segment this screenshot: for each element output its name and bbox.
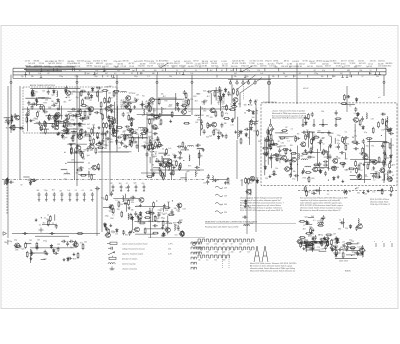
wire W65 (264, 151, 266, 175)
svg-text:0.1 B3: 0.1 B3 (345, 66, 350, 68)
transistor Q45 (362, 155, 368, 160)
ground G39 (390, 193, 393, 196)
inductor L41 (166, 223, 172, 224)
ground G30 (337, 175, 340, 178)
svg-text:Mains 220V 50Hz All resistors: Mains 220V 50Hz All resistors in ohms Ma (272, 117, 306, 120)
svg-text:3k3: 3k3 (203, 91, 206, 93)
svg-text:2.2 B8: 2.2 B8 (249, 63, 254, 65)
svg-text:1n5: 1n5 (273, 157, 276, 159)
wire W81 (364, 161, 385, 163)
capacitor C33 (208, 124, 213, 127)
wire W153 (319, 250, 327, 252)
svg-text:0.1: 0.1 (39, 224, 42, 226)
svg-text:33k: 33k (131, 209, 134, 211)
resistor R110 (270, 134, 272, 141)
wire W146 (69, 91, 103, 93)
resistor R181 (64, 121, 66, 128)
junction N33 (351, 255, 352, 256)
inductor L22 (197, 148, 203, 149)
svg-text:10k: 10k (169, 76, 172, 78)
svg-text:5p6: 5p6 (87, 155, 90, 157)
wire W60 (181, 149, 189, 151)
svg-text:12: 12 (360, 170, 362, 172)
diode D36 (349, 224, 352, 229)
supply rail bus 1 (13, 67, 386, 69)
capacitor C198 (308, 242, 313, 245)
resistor R89 (127, 129, 134, 131)
svg-text:12: 12 (126, 183, 128, 185)
diode D21 (146, 129, 149, 134)
capacitor C23 (144, 105, 149, 108)
chassis chain line (298, 190, 397, 192)
svg-text:100: 100 (154, 70, 157, 72)
wire W152 (306, 249, 321, 251)
svg-text:33k: 33k (109, 205, 112, 207)
capacitor C140 (128, 231, 131, 236)
svg-text:12: 12 (217, 67, 219, 69)
resistor R145 (310, 228, 312, 235)
capacitor C58 (149, 139, 152, 144)
resistor R204 (345, 144, 347, 151)
svg-text:4k7: 4k7 (279, 146, 282, 148)
capacitor C106 (386, 126, 389, 131)
junction cross (39, 228, 44, 233)
svg-text:100: 100 (142, 70, 145, 72)
capacitor C45 (254, 100, 257, 105)
svg-text:82: 82 (129, 120, 131, 122)
inductor L42 (127, 213, 130, 219)
wire W159 (346, 250, 360, 252)
resistor R12 (107, 117, 114, 119)
diode D55 (159, 162, 162, 167)
svg-text:220: 220 (210, 117, 213, 119)
svg-text:4k7: 4k7 (142, 115, 145, 117)
capacitor C107 (355, 142, 360, 145)
capacitor C4 (47, 115, 50, 120)
plug stub 3 (242, 80, 244, 82)
svg-text:C5: C5 (301, 240, 303, 242)
wire W148 (65, 123, 86, 125)
transistor Q33 (72, 242, 78, 247)
svg-text:270p B4: 270p B4 (276, 63, 283, 65)
ground G41 (306, 221, 309, 224)
wire W57 (171, 160, 173, 180)
svg-text:33k: 33k (131, 202, 134, 204)
resistor R113 (302, 153, 309, 155)
detector rail wire 2 (151, 118, 153, 176)
svg-text:0.1: 0.1 (44, 218, 47, 220)
diode D14 (222, 93, 225, 98)
svg-text:12: 12 (306, 130, 308, 132)
resistor R17 (84, 97, 91, 99)
svg-text:wired on tag strip: wired on tag strip (122, 263, 136, 266)
ground G4 (29, 119, 32, 122)
svg-text:3k3: 3k3 (178, 152, 181, 154)
ground G60 (84, 130, 87, 133)
resistor R112 (308, 176, 310, 183)
audio rail wire 2 (109, 118, 111, 196)
svg-text:2.2: 2.2 (68, 117, 71, 119)
svg-text:2.2: 2.2 (287, 141, 290, 143)
ground G70 (389, 160, 392, 163)
wire W74 (316, 149, 318, 165)
wire W6 (49, 88, 56, 90)
resistor R116 (305, 172, 312, 174)
svg-text:C24: C24 (179, 220, 182, 222)
waveform callout 2 (215, 194, 228, 197)
svg-text:33k U4: 33k U4 (222, 66, 228, 68)
capacitor C42 (227, 91, 230, 96)
wire W116 (42, 97, 49, 99)
wire W150 (71, 130, 77, 132)
svg-text:82: 82 (111, 183, 113, 185)
speaker return wire (35, 235, 69, 237)
resistor R183 (152, 143, 154, 150)
ground G54 (214, 179, 217, 182)
capacitor C47 (244, 128, 249, 131)
wire W107 (113, 198, 139, 200)
svg-text:47p: 47p (327, 168, 330, 170)
inductor L55 (362, 251, 363, 257)
transistor Q83 (181, 110, 187, 115)
wire W73 (327, 146, 329, 171)
wire W143 (306, 247, 313, 249)
inductor L2 (28, 110, 29, 116)
capacitor C117 (343, 189, 346, 194)
svg-text:5p6: 5p6 (232, 118, 235, 120)
capacitor C176 (324, 245, 327, 250)
svg-text:10k: 10k (198, 260, 201, 262)
capacitor C56 (117, 136, 122, 139)
wire W1 (67, 111, 93, 113)
junction N8 (88, 162, 89, 163)
capacitor C70 (170, 163, 173, 168)
diode D20 (67, 129, 70, 134)
svg-text:C79: C79 (317, 247, 320, 249)
resistor R30 (11, 115, 13, 122)
resistor R71 (91, 174, 93, 181)
svg-text:33k: 33k (272, 76, 275, 78)
wire W87 (350, 175, 356, 177)
diode D54 (152, 172, 155, 177)
resistor R227 (321, 240, 323, 247)
diode D17 (240, 130, 243, 135)
capacitor C24 (140, 103, 145, 106)
svg-text:C90: C90 (281, 143, 284, 145)
svg-text:680: 680 (311, 178, 314, 180)
capacitor C31 (130, 118, 135, 121)
wire W30 (220, 92, 222, 111)
svg-text:220: 220 (345, 228, 348, 230)
resistor R212 (54, 119, 56, 126)
svg-text:12: 12 (363, 153, 365, 155)
capacitor C68 (150, 147, 155, 150)
wire W160 (346, 254, 355, 256)
oscillogram symbol row 2 col 2 (206, 247, 213, 254)
svg-text:680: 680 (110, 142, 113, 144)
resistor R34 (160, 119, 162, 126)
wire W64 (297, 146, 299, 182)
plug socket P10 (247, 82, 250, 85)
inductor L47 (139, 127, 145, 128)
transistor Q90 (165, 228, 171, 233)
capacitor C164 (95, 187, 100, 190)
terminal P6 (383, 81, 385, 83)
inductor L32 (387, 117, 388, 123)
svg-text:0.1: 0.1 (98, 147, 101, 149)
svg-text:POWER PACK: POWER PACK (263, 101, 277, 104)
ground G19 (104, 132, 107, 135)
capacitor C17 (38, 121, 41, 126)
power pack enclosure box (261, 103, 397, 186)
resistor R233 (310, 241, 317, 243)
wire W3 (98, 90, 100, 102)
resistor R58 (343, 94, 345, 101)
svg-text:chassis connection: chassis connection (122, 268, 137, 271)
wire W43 (75, 151, 85, 153)
wire W98 (41, 259, 46, 261)
wire W21 (147, 118, 157, 120)
svg-text:220: 220 (45, 100, 48, 102)
junction N20 (355, 188, 356, 189)
svg-text:4k7: 4k7 (151, 155, 154, 157)
svg-text:4k7: 4k7 (79, 70, 82, 72)
svg-text:100 G7: 100 G7 (341, 61, 347, 63)
resistor R27 (62, 125, 69, 127)
ground G40 (312, 229, 315, 232)
diode D7 (129, 108, 132, 113)
svg-text:4k7: 4k7 (234, 73, 237, 75)
capacitor C155 (123, 145, 128, 148)
resistor R184 (156, 144, 163, 146)
wire W61 (267, 127, 269, 165)
svg-text:47p: 47p (354, 135, 357, 137)
resistor R194 (144, 217, 151, 219)
diode D43 (139, 211, 142, 216)
capacitor C143 (134, 211, 137, 216)
svg-text:4k7: 4k7 (230, 94, 233, 96)
resistor R70 (70, 148, 72, 155)
svg-text:R99: R99 (43, 102, 46, 104)
capacitor C135 (171, 209, 174, 214)
resistor R199 (295, 136, 297, 143)
svg-text:12: 12 (15, 247, 17, 249)
svg-text:680: 680 (104, 148, 107, 150)
svg-text:12: 12 (71, 93, 73, 95)
svg-text:0.1: 0.1 (122, 140, 125, 142)
ground G32 (321, 151, 324, 154)
svg-text:5p6: 5p6 (352, 252, 355, 254)
svg-text:82: 82 (244, 113, 246, 115)
svg-text:S88: S88 (330, 133, 333, 135)
svg-text:82: 82 (231, 244, 233, 246)
transistor Q15 (128, 128, 134, 133)
svg-text:3k3: 3k3 (311, 216, 314, 218)
svg-text:S92: S92 (193, 96, 196, 98)
diode D59 (91, 87, 94, 92)
diode D47 (131, 216, 134, 221)
svg-text:680: 680 (384, 129, 387, 131)
svg-text:100 B15: 100 B15 (292, 61, 299, 63)
svg-text:680: 680 (198, 244, 201, 246)
svg-text:47p: 47p (30, 121, 33, 123)
oscillogram symbol row 1 col 5 (231, 239, 238, 246)
ground G3 (107, 100, 110, 103)
junction N28 (248, 206, 249, 207)
svg-text:3k3: 3k3 (63, 102, 66, 104)
svg-text:3k3: 3k3 (349, 167, 352, 169)
svg-text:3k3: 3k3 (57, 109, 60, 111)
capacitor C51 (86, 147, 89, 152)
wire W14 (34, 123, 55, 125)
capacitor C189 (79, 133, 82, 138)
resistor R99 (262, 147, 269, 149)
resistor R185 (131, 141, 138, 143)
inductor L46 (244, 225, 250, 226)
wire W10 (117, 106, 119, 128)
svg-text:C8: C8 (203, 104, 205, 106)
wire W90 (319, 187, 321, 195)
resistor R134 (361, 153, 368, 155)
capacitor C136 (153, 224, 158, 227)
svg-text:47p: 47p (127, 113, 130, 115)
wire W134 (264, 137, 266, 165)
ground G2 (98, 126, 101, 129)
svg-text:82: 82 (21, 185, 23, 187)
svg-text:33k: 33k (83, 150, 86, 152)
diode D51 (79, 122, 82, 127)
svg-text:82: 82 (90, 100, 92, 102)
diode D34 (305, 121, 308, 126)
svg-text:47p: 47p (76, 97, 79, 99)
svg-text:270p: 270p (105, 215, 109, 217)
capacitor C12 (70, 114, 75, 117)
capacitor C88 (324, 150, 329, 153)
capacitor C65 (116, 129, 119, 134)
wire W157 (347, 243, 359, 245)
svg-text:3k3: 3k3 (342, 67, 345, 69)
inductor L17 (163, 158, 164, 164)
svg-text:100: 100 (314, 165, 317, 167)
svg-text:adjust for maximum output: adjust for maximum output (122, 252, 144, 255)
capacitor C168 (273, 153, 278, 156)
svg-text:82: 82 (163, 218, 165, 220)
svg-text:10k: 10k (206, 244, 209, 246)
capacitor C50 (79, 166, 84, 169)
wire W130 (144, 228, 169, 230)
svg-text:100: 100 (252, 117, 255, 119)
bus drop stub 6 (383, 75, 385, 82)
svg-text:100: 100 (345, 159, 348, 161)
junction N1 (66, 97, 67, 98)
legend symbol row 4 (109, 256, 137, 261)
svg-text:12: 12 (303, 225, 305, 227)
svg-text:S33: S33 (321, 133, 324, 135)
bus drop stub 5 (191, 75, 193, 82)
resistor R102 (281, 130, 288, 132)
svg-text:47p: 47p (366, 146, 369, 148)
resistor R176 (130, 213, 132, 220)
inductor L16 (161, 156, 162, 162)
junction N13 (183, 160, 184, 161)
capacitor C149 (51, 104, 56, 107)
svg-text:4k7: 4k7 (210, 70, 213, 72)
svg-text:12: 12 (333, 159, 335, 161)
svg-text:100: 100 (123, 130, 126, 132)
svg-text:33k U1: 33k U1 (58, 60, 64, 62)
legend symbol row 1 (107, 242, 173, 245)
wire W68 (345, 153, 347, 160)
bus drop stub 3 (116, 75, 118, 82)
svg-text:220: 220 (190, 99, 193, 101)
supply rail bus 1a heavy segment (24, 69, 130, 71)
link wire top (141, 172, 165, 174)
svg-text:680 B5: 680 B5 (87, 65, 93, 67)
ground G56 (244, 199, 247, 202)
junction N7 (64, 152, 65, 153)
diode D56 (174, 154, 177, 159)
ground G38 (362, 191, 365, 194)
svg-text:1M G2: 1M G2 (193, 61, 198, 63)
capacitor C104 (362, 139, 365, 144)
capacitor C53 (98, 142, 103, 145)
svg-text:4k7: 4k7 (163, 109, 166, 111)
capacitor C142 (149, 209, 152, 214)
inductor L51 (327, 153, 328, 159)
svg-text:680: 680 (275, 67, 278, 69)
resistor R87 (159, 141, 161, 148)
capacitor C43 (246, 109, 251, 112)
wire W124 (123, 137, 148, 139)
capacitor C34 (218, 86, 221, 91)
diode D50 (57, 98, 60, 103)
svg-text:1n5: 1n5 (67, 190, 70, 192)
svg-text:S97: S97 (255, 100, 258, 102)
resistor R148 (321, 217, 323, 224)
resistor R209 (307, 244, 314, 246)
svg-text:220 B7: 220 B7 (310, 63, 316, 65)
resistor R211 (312, 243, 314, 250)
capacitor C2 (81, 90, 86, 93)
svg-text:270p: 270p (331, 240, 335, 242)
resistor R77 (84, 134, 91, 136)
svg-text:0.1: 0.1 (354, 113, 357, 115)
svg-text:10k: 10k (108, 93, 111, 95)
transistor Q43 (134, 227, 140, 232)
resistor R151 (5, 178, 7, 185)
capacitor C128 (67, 257, 72, 260)
junction N18 (381, 135, 382, 136)
oscillogram symbol row 2 col 3 (214, 247, 221, 254)
inductor L26 (301, 159, 307, 160)
svg-text:5p6: 5p6 (293, 153, 296, 155)
svg-text:680: 680 (220, 134, 223, 136)
svg-text:33k: 33k (78, 127, 81, 129)
mains feed wire (296, 63, 298, 104)
resistor R163 (112, 207, 114, 214)
junction N9 (140, 135, 141, 136)
wire W118 (66, 128, 82, 130)
wire W55 (155, 161, 166, 163)
wire W31 (211, 89, 222, 91)
wire W75 (331, 137, 333, 144)
svg-text:100: 100 (70, 148, 73, 150)
inductor L6 (121, 92, 127, 93)
capacitor C28 (177, 107, 180, 112)
svg-text:2.2: 2.2 (147, 76, 149, 78)
svg-text:5p6: 5p6 (44, 259, 47, 261)
svg-text:12: 12 (106, 200, 108, 202)
